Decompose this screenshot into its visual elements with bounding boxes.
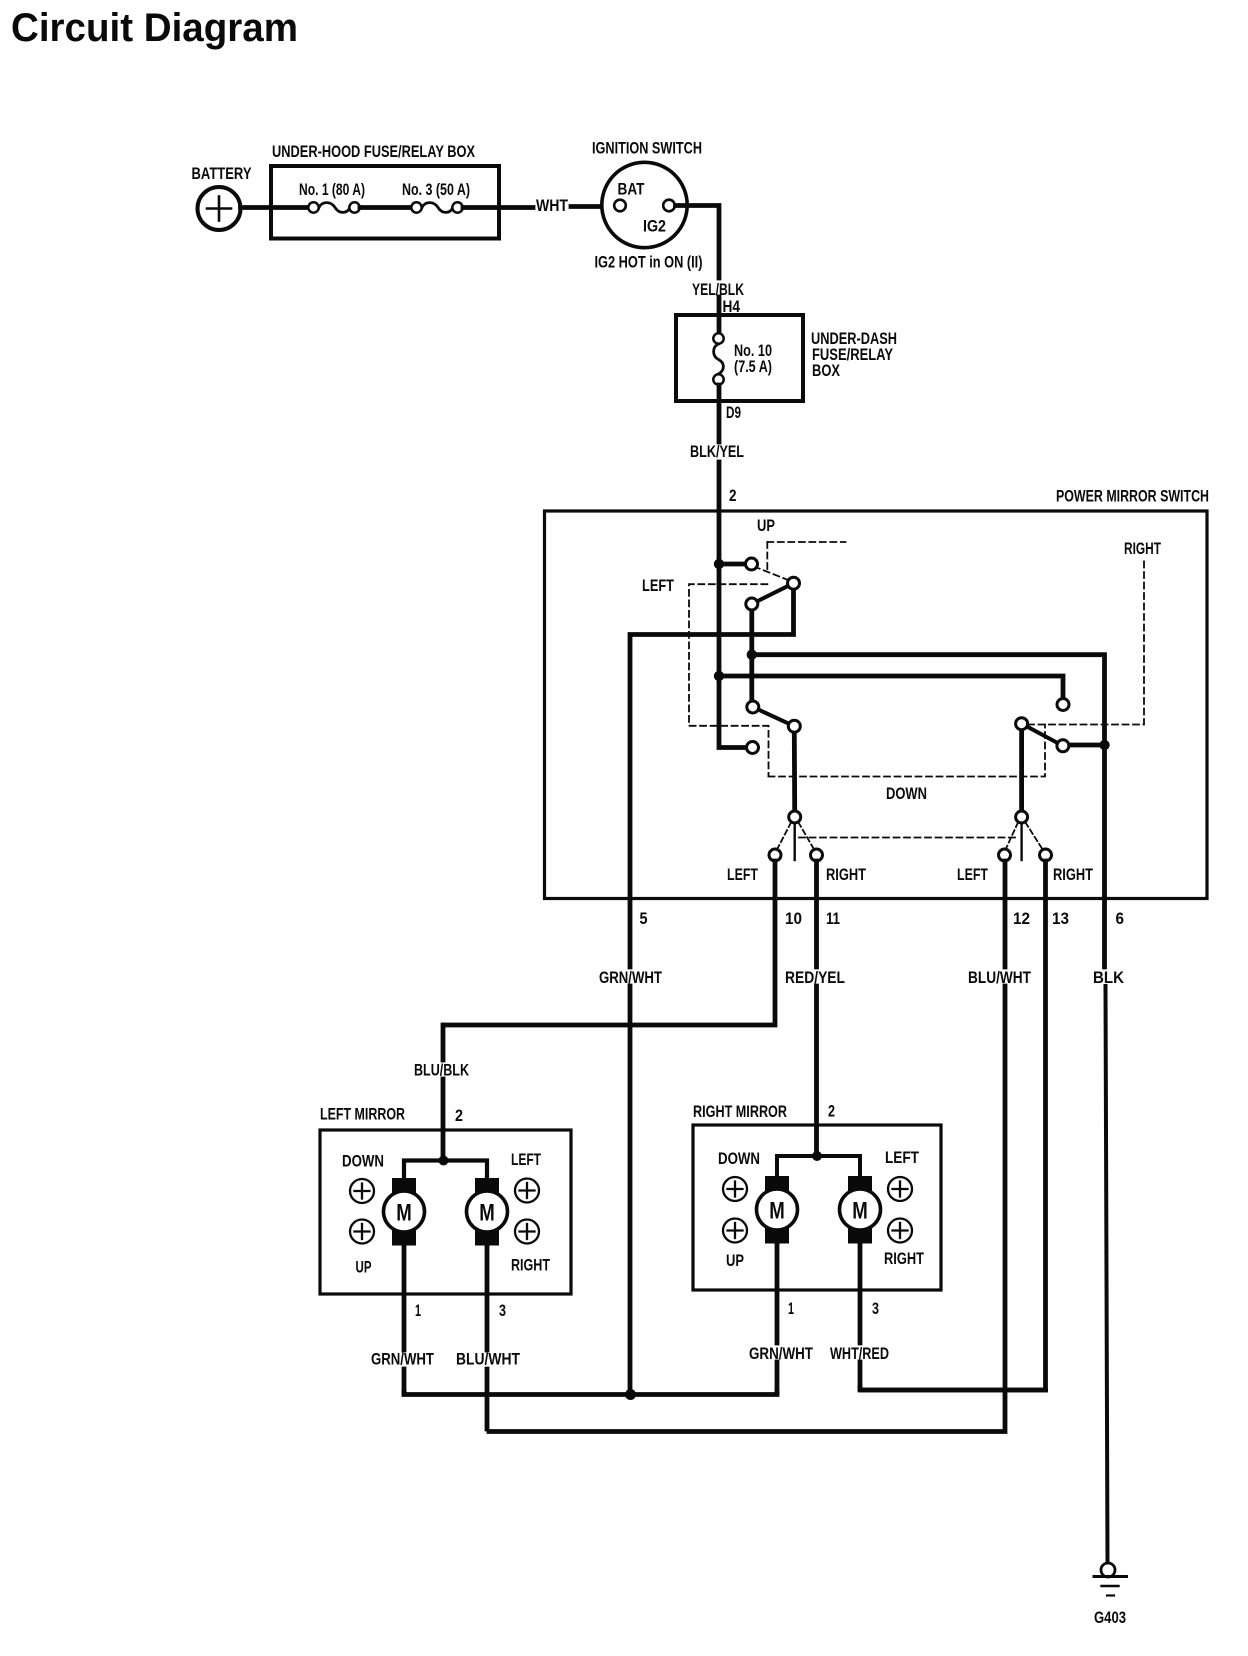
left common dashed V	[778, 823, 814, 849]
adjuster plus bottom-right	[515, 1220, 539, 1244]
junction dot J3	[714, 671, 724, 681]
adjuster plus bottom-right (right mirror)	[888, 1219, 912, 1243]
contact circle C	[788, 577, 800, 589]
svg-text:M: M	[479, 1200, 495, 1227]
adjuster plus top-left (right mirror)	[723, 1177, 747, 1201]
contact circle D	[747, 701, 759, 713]
right switch: wire H to pin6 trunk	[1068, 743, 1106, 748]
motor M4 (right mirror left/right)	[840, 1176, 881, 1244]
right mirror pin3 wire to bus	[858, 1362, 863, 1388]
wire from E down to left common	[792, 732, 797, 811]
fuse No.10 (7.5 A)	[713, 333, 723, 384]
svg-text:GRN/WHT: GRN/WHT	[371, 1350, 434, 1369]
svg-text:UNDER-HOOD FUSE/RELAY BOX: UNDER-HOOD FUSE/RELAY BOX	[272, 142, 475, 161]
right common circle	[1016, 811, 1028, 823]
wire YEL/BLK down to under-dash box	[717, 297, 722, 334]
GRN/WHT bus wire	[404, 1392, 777, 1395]
wire BLK/YEL into power mirror switch	[717, 462, 722, 564]
left terminal RIGHT circle (pin 11)	[811, 849, 823, 861]
adjuster plus top-left	[350, 1179, 374, 1203]
WHT/RED bus wire	[860, 1388, 1046, 1390]
wire pin6 trunk down inside box	[1102, 744, 1107, 898]
adjuster plus bottom-left	[350, 1220, 374, 1244]
left mirror pin1 wire upper	[402, 1246, 407, 1351]
ground G403	[1094, 1563, 1127, 1596]
svg-text:12: 12	[1013, 909, 1030, 928]
svg-text:LEFT: LEFT	[727, 865, 758, 884]
svg-text:10: 10	[785, 909, 802, 928]
right mirror box	[693, 1125, 941, 1290]
svg-text:RIGHT: RIGHT	[1053, 865, 1093, 884]
svg-text:D9: D9	[726, 403, 741, 422]
svg-text:IGNITION SWITCH: IGNITION SWITCH	[592, 139, 702, 158]
ignition IG2 terminal	[663, 200, 675, 212]
adjuster plus top-right (right mirror)	[888, 1177, 912, 1201]
svg-text:DOWN: DOWN	[718, 1149, 760, 1168]
contact circle B	[746, 598, 758, 610]
wire pin6 BLK upper segment	[1102, 898, 1107, 967]
svg-text:LEFT: LEFT	[885, 1148, 919, 1167]
wire from contact B down to contact D	[749, 610, 754, 701]
svg-text:DOWN: DOWN	[886, 784, 927, 803]
svg-text:UP: UP	[726, 1251, 744, 1270]
left mirror pin3 wire to bus	[485, 1369, 490, 1429]
svg-text:RIGHT: RIGHT	[511, 1256, 550, 1275]
wire pin6 BLK down to ground	[1106, 986, 1108, 1563]
contact circle F (trunk lower terminal)	[747, 742, 759, 754]
common linkage dashed (between switch commons)	[799, 837, 1019, 839]
svg-text:UP: UP	[757, 516, 775, 535]
svg-text:3: 3	[872, 1299, 879, 1318]
svg-text:RIGHT: RIGHT	[884, 1249, 924, 1268]
svg-text:(7.5 A): (7.5 A)	[734, 357, 772, 376]
left common circle	[789, 811, 801, 823]
left mirror branch wires to motors	[404, 1161, 487, 1179]
right terminal LEFT circle (pin 12)	[999, 849, 1011, 861]
right mirror pin1 wire upper	[775, 1242, 780, 1344]
svg-text:2: 2	[455, 1106, 463, 1125]
svg-text:3: 3	[499, 1301, 506, 1320]
svg-text:WHT: WHT	[536, 196, 568, 215]
motor M1 (left mirror up/down)	[384, 1178, 425, 1246]
contact circle I	[1057, 699, 1069, 711]
svg-text:2: 2	[828, 1102, 835, 1121]
wire GRN/WHT: from contact C corner to pin 5	[630, 590, 794, 968]
fuse No.3 (50 A)	[411, 202, 462, 212]
svg-text:BAT: BAT	[618, 180, 645, 199]
right mirror pin1 wire to bus	[775, 1362, 780, 1392]
left terminal LEFT circle (pin 10)	[769, 849, 781, 861]
svg-text:LEFT: LEFT	[642, 576, 674, 595]
svg-text:LEFT: LEFT	[957, 865, 988, 884]
switch blade D-E (left, down position)	[753, 707, 795, 726]
under-hood fuse/relay box	[271, 166, 499, 239]
wire BLU/BLK down to left mirror (upper part)	[441, 1025, 446, 1060]
wire fuse box to WHT label	[463, 205, 533, 210]
wire trunk inside switch (2 down to lower corner)	[719, 564, 746, 748]
fuse No.1 (80 A)	[308, 202, 359, 212]
under-dash fuse/relay box	[676, 315, 803, 401]
right mirror pin3 wire upper	[858, 1242, 863, 1344]
svg-text:GRN/WHT: GRN/WHT	[749, 1344, 813, 1363]
svg-text:13: 13	[1052, 909, 1069, 928]
wire BLU/BLK into left mirror	[441, 1079, 446, 1161]
svg-text:RIGHT: RIGHT	[1124, 539, 1161, 558]
svg-text:RIGHT MIRROR: RIGHT MIRROR	[693, 1102, 787, 1121]
UP linkage dashed	[754, 542, 846, 580]
left mirror pin3 wire upper	[485, 1246, 490, 1351]
wire pin5 GRN/WHT down to bus junction	[628, 986, 633, 1395]
svg-text:BLU/WHT: BLU/WHT	[968, 968, 1031, 987]
svg-text:IG2: IG2	[643, 217, 666, 236]
wire pin11 RED/YEL upper segment	[814, 861, 819, 967]
svg-text:No. 1 (80 A): No. 1 (80 A)	[299, 180, 365, 199]
wire WHT to ignition BAT terminal	[571, 204, 613, 209]
svg-text:LEFT MIRROR: LEFT MIRROR	[320, 1105, 405, 1124]
wire pin12 BLU/WHT upper segment	[1003, 861, 1008, 967]
svg-text:BOX: BOX	[812, 361, 840, 380]
left common actuator line	[794, 824, 796, 861]
contact circle H	[1057, 740, 1069, 752]
junction dot J2	[747, 650, 757, 660]
svg-text:LEFT: LEFT	[511, 1150, 541, 1169]
junction dot GRN/WHT bus	[625, 1389, 636, 1400]
power mirror switch box	[545, 511, 1208, 899]
svg-text:M: M	[396, 1200, 412, 1227]
DOWN linkage dashed	[769, 557, 1145, 777]
wire thick from J2 to right side and down as pin 6	[752, 655, 1105, 745]
ignition BAT terminal	[614, 200, 626, 212]
junction dot right mirror pin2	[812, 1151, 822, 1161]
svg-text:1: 1	[788, 1299, 794, 1318]
wire pin11 RED/YEL into right mirror	[814, 986, 819, 1156]
right common dashed V	[1006, 823, 1042, 849]
adjuster plus top-right	[515, 1179, 539, 1203]
svg-text:5: 5	[640, 909, 648, 928]
svg-text:6: 6	[1116, 909, 1125, 928]
svg-text:2: 2	[729, 486, 737, 505]
wire battery to fuse box	[241, 205, 310, 210]
contact circle A	[746, 558, 758, 570]
switch blade B-C (left, up position)	[752, 583, 794, 604]
LEFT linkage dashed box	[689, 584, 769, 776]
adjuster plus bottom-left (right mirror)	[723, 1219, 747, 1243]
motor M2 (left mirror left/right)	[467, 1178, 508, 1246]
svg-text:IG2 HOT in ON (II): IG2 HOT in ON (II)	[595, 253, 703, 272]
svg-text:1: 1	[415, 1301, 421, 1320]
svg-text:M: M	[852, 1198, 868, 1225]
wire stub to terminal A	[719, 562, 745, 567]
wire IG2 to corner going down	[676, 206, 720, 279]
wire D9 down to BLK/YEL label	[717, 385, 722, 442]
svg-text:POWER MIRROR SWITCH: POWER MIRROR SWITCH	[1056, 487, 1209, 506]
svg-text:BLK/YEL: BLK/YEL	[690, 442, 744, 461]
svg-text:Circuit Diagram: Circuit Diagram	[11, 6, 298, 50]
contact circle G	[1016, 718, 1028, 730]
svg-text:11: 11	[826, 909, 840, 928]
left mirror pin1 wire to bus	[402, 1369, 407, 1392]
left mirror box	[320, 1130, 571, 1294]
svg-text:No. 3 (50 A): No. 3 (50 A)	[402, 180, 470, 199]
contact circle E	[788, 720, 800, 732]
svg-text:M: M	[769, 1198, 785, 1225]
wire thick from J3 to right contact I	[719, 676, 1063, 699]
junction dot J1	[714, 559, 724, 569]
wire pin10 down and left to BLU/BLK corner	[445, 861, 775, 1025]
right mirror branch wires to motors	[777, 1156, 860, 1177]
wire G down to right common	[1019, 730, 1024, 811]
svg-text:BLU/WHT: BLU/WHT	[456, 1350, 520, 1369]
ignition switch body	[602, 162, 687, 247]
junction dot left mirror pin2	[439, 1156, 449, 1166]
right common actuator line	[1020, 824, 1022, 861]
switch blade G-H (right switch)	[1022, 724, 1063, 746]
junction dot J5 on pin6 trunk	[1099, 740, 1109, 750]
battery B1	[198, 187, 241, 230]
motor M3 (right mirror up/down)	[757, 1176, 798, 1244]
svg-text:UP: UP	[356, 1258, 372, 1277]
svg-text:G403: G403	[1094, 1608, 1126, 1627]
wire pin13 down to WHT/RED bus	[862, 861, 1046, 1390]
svg-text:DOWN: DOWN	[342, 1152, 384, 1171]
svg-text:BATTERY: BATTERY	[192, 164, 253, 183]
svg-text:RIGHT: RIGHT	[826, 865, 866, 884]
wire between fuses	[360, 205, 411, 210]
right terminal RIGHT circle (pin 13)	[1040, 849, 1052, 861]
wire pin12 BLU/WHT down to bus	[489, 986, 1005, 1432]
svg-text:BLK: BLK	[1093, 968, 1125, 987]
